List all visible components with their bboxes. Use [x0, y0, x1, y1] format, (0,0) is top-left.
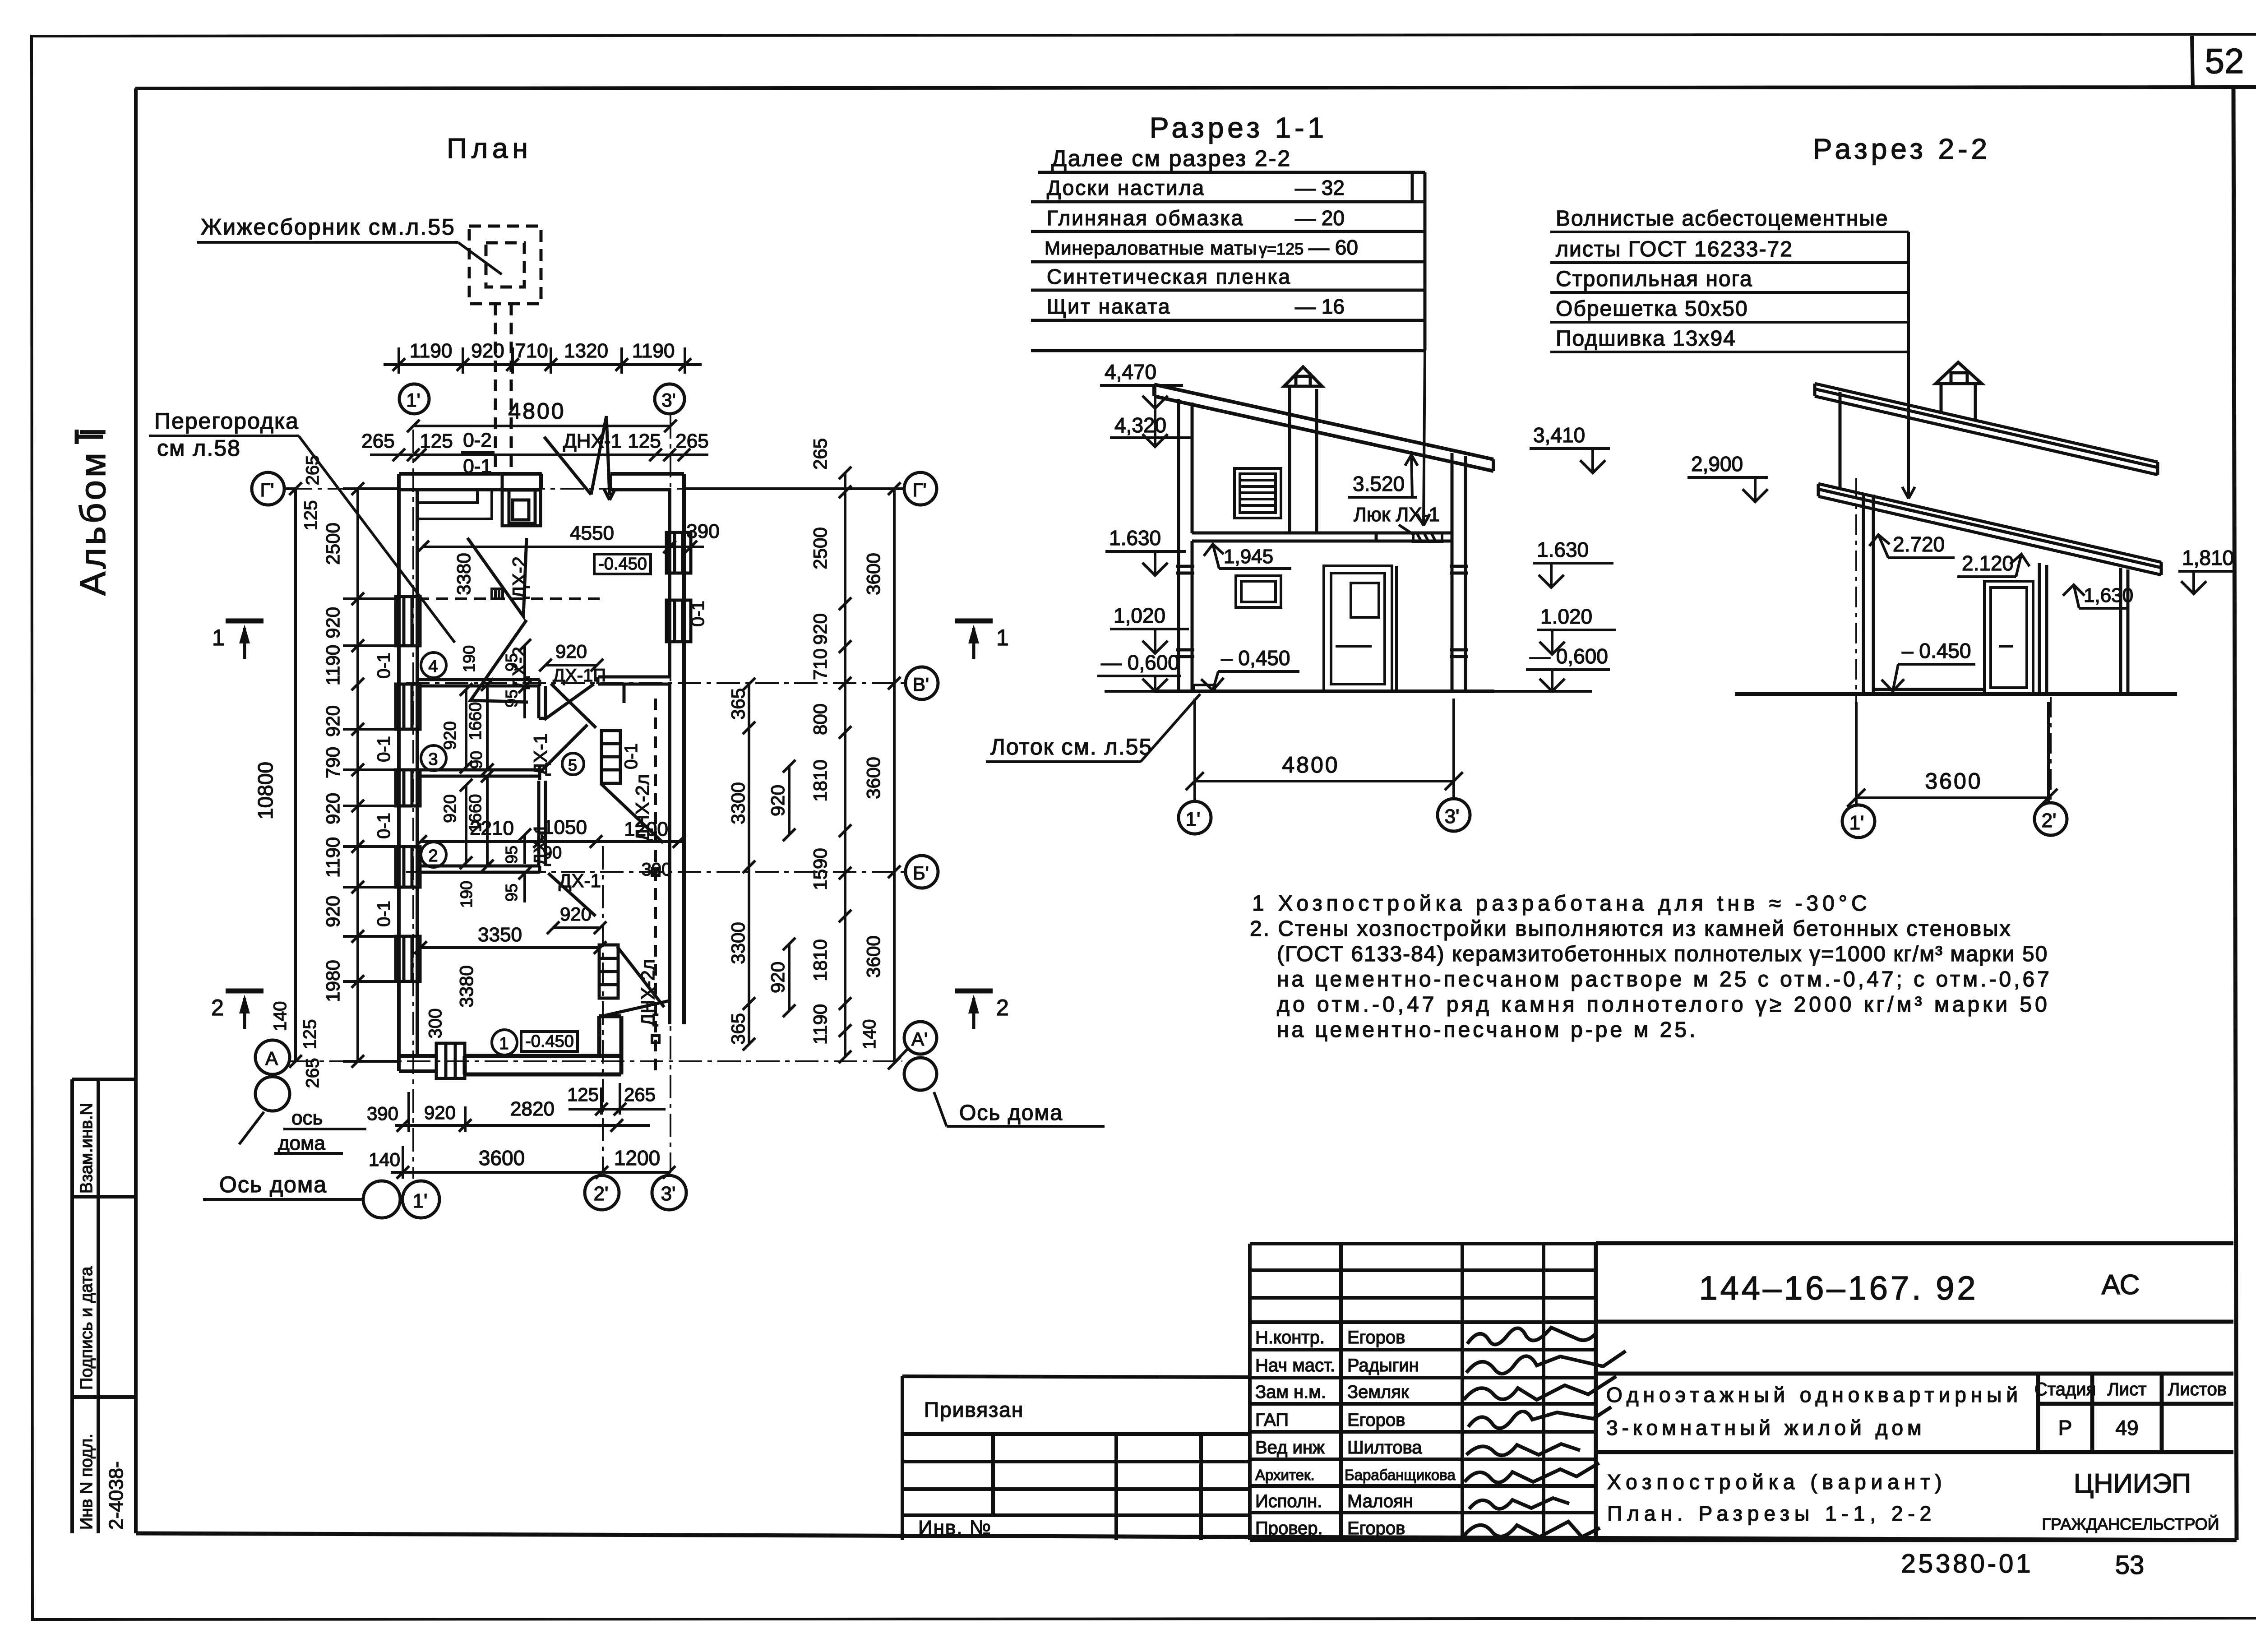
svg-text:Егоров: Егоров — [1347, 1518, 1405, 1538]
svg-text:265: 265 — [809, 438, 831, 470]
svg-text:49: 49 — [2115, 1416, 2138, 1439]
boxed elevation -0450 lower — [521, 1032, 578, 1051]
svg-text:4550: 4550 — [570, 522, 614, 544]
svg-text:95: 95 — [502, 846, 521, 864]
axis circle 1' bottom — [402, 1181, 439, 1218]
svg-text:Синтетическая пленка: Синтетическая пленка — [1047, 265, 1291, 288]
axis circle 3' bottom — [652, 1175, 686, 1210]
svg-text:1': 1' — [1186, 808, 1201, 830]
svg-text:1 Хозпостройка разработана дл: 1 Хозпостройка разработана для tнв ≈ -30… — [1252, 892, 1871, 916]
svg-text:Разрез 1-1: Разрез 1-1 — [1150, 111, 1327, 144]
s1 ceiling — [1192, 533, 1452, 541]
svg-text:1810: 1810 — [809, 759, 831, 801]
svg-text:В': В' — [913, 674, 929, 695]
room3 vertical dim lines — [460, 678, 494, 776]
svg-text:Стадия: Стадия — [2034, 1379, 2096, 1399]
s2 gable edge — [1839, 392, 1842, 488]
svg-text:Альбом I: Альбом I — [73, 425, 113, 596]
svg-text:1.630: 1.630 — [1109, 526, 1161, 550]
svg-text:2: 2 — [428, 847, 438, 865]
svg-text:2,900: 2,900 — [1691, 452, 1743, 476]
svg-text:1190: 1190 — [322, 837, 343, 878]
svg-text:920: 920 — [471, 340, 504, 362]
svg-text:Листов: Листов — [2168, 1379, 2227, 1399]
svg-text:125: 125 — [567, 1084, 599, 1105]
vertical partition — [539, 781, 546, 833]
SECTION 2-2 — [1550, 133, 2234, 838]
s2 floor — [1735, 689, 2177, 694]
svg-text:— 0,600: — 0,600 — [1101, 651, 1179, 674]
svg-text:Ось дома: Ось дома — [959, 1101, 1063, 1125]
svg-text:2820: 2820 — [510, 1098, 555, 1120]
s1 window — [1236, 576, 1281, 607]
svg-text:0-2: 0-2 — [463, 429, 492, 451]
svg-text:2': 2' — [2042, 810, 2057, 832]
roof layer label 3 — [1550, 267, 1909, 292]
svg-text:1': 1' — [406, 389, 420, 411]
lobby inner wall lines — [417, 490, 492, 519]
elev 4470 — [1100, 360, 1183, 408]
axis circle G' right — [904, 472, 937, 505]
s1 door — [1324, 566, 1396, 691]
hidden dashed line right interior — [652, 699, 659, 1074]
svg-text:3: 3 — [428, 750, 438, 769]
right floating dim 920 upper — [767, 760, 795, 841]
right floating dim 920 lower — [767, 938, 795, 1017]
svg-text:Провер.: Провер. — [1255, 1518, 1323, 1538]
svg-text:Ось дома: Ось дома — [219, 1172, 327, 1197]
door DNH-1 swing — [544, 416, 615, 500]
svg-text:95: 95 — [502, 653, 521, 671]
partition circle 4 — [421, 652, 446, 678]
svg-text:920: 920 — [322, 705, 343, 737]
elev -0450 s1 — [1201, 646, 1299, 690]
svg-text:0-1: 0-1 — [374, 736, 394, 762]
elev 2720 — [1869, 532, 1955, 558]
plan top wall — [399, 474, 684, 490]
svg-text:Б': Б' — [913, 862, 929, 884]
svg-text:365: 365 — [727, 1013, 749, 1045]
elev 3520 — [1348, 455, 1418, 497]
svg-text:— 32: — 32 — [1295, 176, 1345, 199]
svg-text:Далее см разрез 2-2: Далее см разрез 2-2 — [1051, 146, 1291, 171]
svg-text:Подпись и дата: Подпись и дата — [77, 1266, 96, 1390]
plan bottom wall left segment — [399, 1056, 436, 1071]
elev -0600 left — [1097, 651, 1181, 691]
svg-text:— 16: — 16 — [1295, 295, 1345, 318]
svg-text:Шилтова: Шилтова — [1347, 1438, 1422, 1458]
table leader to roof — [1417, 351, 1430, 526]
s2 dim 3600 — [1847, 702, 2057, 807]
elev 1945 — [1204, 544, 1291, 569]
svg-text:Г': Г' — [260, 479, 274, 500]
svg-text:1190: 1190 — [632, 340, 675, 362]
bottom dim row 140 3600 1200 — [369, 1146, 675, 1179]
PLAN — [77, 133, 1105, 1218]
svg-text:710: 710 — [809, 648, 831, 680]
svg-text:2. Стены хозпостройки выполняю: 2. Стены хозпостройки выполняются из кам… — [1250, 917, 2012, 941]
s2 axis circle 2' — [2034, 803, 2067, 835]
roof layer label 5 — [1550, 327, 1909, 352]
svg-text:920: 920 — [441, 794, 460, 823]
svg-text:265: 265 — [624, 1084, 656, 1105]
axis circle A left — [255, 1040, 290, 1074]
top dim 4800 — [407, 398, 677, 432]
inner frame bottom — [136, 1533, 2237, 1540]
svg-text:Барабанщикова: Барабанщикова — [1345, 1467, 1456, 1483]
door DNH-2l upper swing — [601, 783, 663, 843]
svg-text:3.520: 3.520 — [1353, 472, 1405, 495]
os doma label near A — [239, 1107, 366, 1154]
partition P4 — [417, 680, 540, 686]
svg-text:на цементно-песчаном растворе: на цементно-песчаном растворе м 25 с отм… — [1277, 967, 2052, 991]
svg-text:1,630: 1,630 — [2084, 584, 2133, 606]
svg-text:300: 300 — [425, 1009, 445, 1039]
svg-text:3600: 3600 — [863, 935, 884, 977]
section cut mark 1 left — [212, 621, 264, 659]
svg-text:Волнистые асбестоцементные: Волнистые асбестоцементные — [1556, 207, 1889, 231]
svg-text:ДХ-1: ДХ-1 — [559, 870, 601, 891]
svg-text:Н.контр.: Н.контр. — [1255, 1328, 1325, 1347]
svg-text:3': 3' — [1445, 805, 1460, 828]
svg-text:ось: ось — [291, 1107, 323, 1129]
s1 right wall — [1450, 453, 1468, 691]
s1 roof slab — [1154, 384, 1493, 471]
svg-text:ДХ-1: ДХ-1 — [530, 733, 551, 776]
svg-text:γ=125: γ=125 — [1259, 240, 1304, 258]
axis dashdot horizontal B' — [406, 871, 906, 873]
left wall piers — [396, 597, 420, 981]
elev 1630 right — [1533, 538, 1613, 588]
axis dashdot horizontal V' — [406, 682, 906, 684]
svg-text:Земляк: Земляк — [1347, 1382, 1409, 1402]
roof layer label 1 — [1550, 207, 1909, 232]
axis circle 3' top — [655, 384, 684, 414]
svg-text:Вед инж: Вед инж — [1255, 1438, 1325, 1458]
svg-text:– 0,450: – 0,450 — [1221, 646, 1290, 670]
s2 axis circle 1' — [1842, 805, 1875, 838]
svg-text:0-1: 0-1 — [374, 813, 394, 839]
svg-text:0-1: 0-1 — [463, 455, 492, 477]
dashed level line big room — [417, 597, 600, 600]
svg-text:ДНХ-2л: ДНХ-2л — [637, 959, 658, 1027]
room circle 5 — [562, 753, 584, 775]
svg-text:Привязан: Привязан — [924, 1398, 1024, 1421]
svg-text:1,810: 1,810 — [2182, 546, 2234, 569]
svg-text:Р: Р — [2058, 1416, 2072, 1439]
privyazan table — [902, 1376, 1250, 1540]
os doma label right — [934, 1092, 1105, 1126]
s1 attic louver — [1234, 468, 1281, 518]
svg-text:Егоров: Егоров — [1347, 1328, 1405, 1347]
svg-text:125: 125 — [420, 430, 453, 452]
svg-text:1660: 1660 — [466, 702, 485, 740]
door DH-1P leaf and swing — [539, 684, 596, 728]
sh mark — [492, 589, 503, 599]
svg-text:920: 920 — [441, 721, 460, 750]
sheet number box divider — [2192, 36, 2193, 88]
svg-text:3300: 3300 — [727, 782, 749, 824]
svg-text:125: 125 — [301, 500, 321, 531]
top dim chain 1 — [384, 340, 702, 374]
s1 floor — [1155, 689, 1494, 693]
svg-text:190: 190 — [457, 881, 476, 908]
svg-text:до отм.-0,47 ряд камня полноте: до отм.-0,47 ряд камня полнотелого γ≥ 20… — [1277, 993, 2050, 1017]
svg-text:Г': Г' — [913, 479, 927, 500]
svg-text:Одноэтажный одноквартирный: Одноэтажный одноквартирный — [1606, 1383, 2022, 1407]
svg-text:0-1: 0-1 — [621, 743, 641, 769]
svg-text:Нач маст.: Нач маст. — [1255, 1356, 1335, 1375]
svg-text:ГРАЖДАНСЕЛЬСТРОЙ: ГРАЖДАНСЕЛЬСТРОЙ — [2042, 1514, 2219, 1533]
chimney stove block — [502, 474, 541, 526]
porch L wall — [465, 1016, 621, 1074]
axis circle G' left — [252, 472, 296, 505]
svg-text:90: 90 — [543, 843, 562, 862]
svg-text:920: 920 — [322, 896, 343, 927]
svg-text:см л.58: см л.58 — [157, 435, 241, 461]
svg-text:140: 140 — [369, 1149, 400, 1170]
svg-text:Стропильная нога: Стропильная нога — [1556, 267, 1753, 291]
svg-text:265: 265 — [303, 455, 323, 486]
label lotok — [986, 694, 1200, 762]
elev -0600 right — [1526, 644, 1610, 691]
svg-text:920: 920 — [767, 785, 788, 816]
fold mark left — [77, 430, 103, 444]
svg-text:2': 2' — [594, 1183, 609, 1205]
s2 axis dashdot lines — [1856, 478, 2051, 802]
svg-text:710: 710 — [515, 340, 548, 362]
svg-text:Радыгин: Радыгин — [1347, 1356, 1419, 1375]
axis circle blank left — [255, 1077, 290, 1111]
top dim chain 3 — [361, 430, 708, 461]
svg-text:0-1: 0-1 — [688, 601, 708, 627]
svg-text:125: 125 — [300, 1019, 320, 1050]
svg-text:ЦНИИЭП: ЦНИИЭП — [2074, 1468, 2191, 1499]
svg-text:Жижесборник см.л.55: Жижесборник см.л.55 — [201, 214, 456, 240]
door DH-1 room3 swing — [540, 725, 587, 773]
svg-text:920: 920 — [322, 793, 343, 824]
axis circle 1' top — [399, 384, 429, 414]
svg-text:ДНХ-1: ДНХ-1 — [563, 430, 622, 452]
svg-text:0-1: 0-1 — [374, 901, 394, 927]
svg-text:Люк ЛХ-1: Люк ЛХ-1 — [1354, 504, 1440, 526]
plan left wall — [399, 474, 417, 1071]
axis dashdot horizontal A' — [291, 1060, 902, 1062]
top band line — [135, 87, 2256, 88]
partition circle 3 — [421, 745, 446, 771]
axis circle blank right — [904, 1058, 937, 1090]
svg-text:920: 920 — [560, 903, 592, 925]
svg-text:4800: 4800 — [508, 398, 565, 424]
svg-text:390: 390 — [642, 860, 672, 879]
axis circle B' right — [906, 856, 938, 888]
svg-text:– 0.450: – 0.450 — [1902, 639, 1971, 662]
right mid dim col 365 3300 — [727, 678, 755, 1050]
left outer dim 10800 — [254, 482, 302, 1068]
svg-text:Перегородка: Перегородка — [154, 408, 299, 434]
s1 left wall — [1179, 399, 1192, 691]
svg-text:Минераловатные маты: Минераловатные маты — [1045, 237, 1257, 259]
svg-text:Инв N подл.: Инв N подл. — [77, 1434, 96, 1530]
svg-text:1,020: 1,020 — [1114, 604, 1165, 627]
svg-text:3380: 3380 — [453, 553, 474, 595]
chute pier upper — [601, 731, 620, 783]
section cut mark 1 right — [955, 621, 1009, 659]
svg-text:Взам.инв.N: Взам.инв.N — [77, 1103, 96, 1194]
svg-text:140: 140 — [270, 1001, 290, 1032]
entry wall upper right — [598, 677, 670, 703]
svg-text:265: 265 — [675, 430, 708, 452]
elev 1020 right — [1537, 605, 1616, 654]
s2 right walls — [2039, 563, 2128, 694]
svg-text:920: 920 — [555, 641, 587, 662]
inner frame right — [2233, 87, 2237, 1540]
axis circle 2' bottom — [585, 1175, 619, 1210]
svg-text:ДХ-1П: ДХ-1П — [553, 666, 606, 685]
svg-text:53: 53 — [2115, 1550, 2145, 1580]
svg-text:1.020: 1.020 — [1540, 605, 1592, 628]
svg-text:800: 800 — [809, 703, 831, 735]
svg-text:920: 920 — [424, 1102, 456, 1123]
svg-text:2: 2 — [996, 995, 1009, 1020]
partition P3 — [417, 766, 540, 780]
door DNH-2l lower swing — [606, 947, 669, 1015]
elev 2120 — [1957, 551, 2029, 577]
svg-text:265: 265 — [361, 430, 394, 452]
svg-text:— 0,600: — 0,600 — [1530, 644, 1608, 668]
roof layer label 4 — [1550, 297, 1909, 322]
elev 1630 left — [1105, 526, 1186, 575]
zhizhesbornik pit dashed squares — [469, 226, 541, 474]
os doma label bottom — [203, 1172, 364, 1199]
svg-text:2-4038-: 2-4038- — [105, 1461, 127, 1530]
svg-text:90: 90 — [467, 751, 485, 769]
svg-text:190: 190 — [460, 645, 478, 672]
svg-text:Исполн.: Исполн. — [1255, 1491, 1322, 1511]
partition circle 2 — [421, 842, 446, 867]
s2 lower roof band — [1818, 484, 2161, 575]
svg-text:3600: 3600 — [479, 1146, 525, 1170]
svg-text:1,945: 1,945 — [1224, 546, 1273, 568]
right outer dim chain 3600 — [684, 482, 904, 1069]
peregorodka label — [149, 408, 455, 643]
svg-text:(ГОСТ 6133-84) керамзитобетонн: (ГОСТ 6133-84) керамзитобетонных полноте… — [1277, 942, 2048, 966]
svg-text:4,320: 4,320 — [1114, 413, 1166, 437]
svg-text:Разрез 2-2: Разрез 2-2 — [1813, 133, 1991, 165]
svg-text:ГАП: ГАП — [1255, 1410, 1289, 1430]
svg-text:1: 1 — [212, 625, 225, 650]
svg-text:1050: 1050 — [543, 816, 587, 838]
boxed elevation -0450 upper — [594, 554, 651, 574]
svg-text:Лист: Лист — [2108, 1379, 2147, 1399]
svg-text:Егоров: Егоров — [1347, 1410, 1405, 1430]
svg-text:Хозпостройка (вариант): Хозпостройка (вариант) — [1607, 1470, 1947, 1494]
svg-text:1980: 1980 — [322, 960, 343, 1002]
right inner dim chain — [809, 438, 879, 1063]
svg-text:1: 1 — [996, 625, 1009, 650]
bottom dim row 125 265 — [567, 1083, 666, 1115]
svg-text:1: 1 — [499, 1034, 509, 1053]
axis circle V' right — [906, 667, 938, 699]
s2 chimney — [1936, 362, 1982, 421]
SECTION 1-1 — [986, 111, 1616, 834]
axis dashdot vertical 2' — [602, 846, 604, 1172]
right block grid — [1596, 1243, 2234, 1540]
s1 ground extensions — [1105, 685, 1592, 691]
svg-text:0-1: 0-1 — [374, 652, 394, 679]
svg-text:— 20: — 20 — [1295, 206, 1345, 230]
svg-text:4800: 4800 — [1282, 752, 1339, 777]
svg-text:3600: 3600 — [1925, 768, 1982, 794]
svg-text:1190: 1190 — [322, 645, 343, 685]
svg-text:4: 4 — [428, 657, 438, 676]
svg-text:3380: 3380 — [456, 965, 477, 1007]
svg-text:— 60: — 60 — [1308, 236, 1358, 259]
svg-text:1': 1' — [1849, 812, 1864, 834]
s2 left wall — [1863, 493, 1873, 694]
svg-text:4,470: 4,470 — [1105, 360, 1156, 384]
svg-text:5: 5 — [568, 756, 577, 774]
svg-text:А': А' — [911, 1028, 928, 1050]
dim 4550 390 — [416, 520, 720, 553]
elev 2900 — [1687, 452, 1768, 502]
svg-text:1590: 1590 — [809, 848, 831, 890]
svg-text:3': 3' — [661, 1183, 676, 1205]
axis dashdot vertical 3' — [670, 415, 671, 1173]
svg-text:-0.450: -0.450 — [525, 1032, 574, 1051]
partition P2 — [417, 866, 540, 872]
svg-text:1320: 1320 — [564, 340, 608, 362]
elev 1630 s2 — [2063, 584, 2133, 608]
svg-text:1190: 1190 — [809, 1004, 831, 1045]
svg-text:144–16–167. 92: 144–16–167. 92 — [1699, 1269, 1979, 1307]
svg-text:Глиняная обмазка: Глиняная обмазка — [1047, 206, 1244, 230]
svg-text:Доски настила: Доски настила — [1047, 176, 1205, 199]
NOTES — [1250, 892, 2052, 1042]
svg-text:2: 2 — [211, 995, 224, 1020]
section cut mark 2 left — [211, 991, 264, 1029]
svg-text:на цементно-песчаном р-ре м 25: на цементно-песчаном р-ре м 25. — [1277, 1018, 1698, 1042]
elev 4320 — [1110, 408, 1191, 447]
svg-text:Лоток см. л.55: Лоток см. л.55 — [990, 734, 1152, 759]
svg-text:265: 265 — [303, 1058, 323, 1088]
elev 1020 left — [1110, 604, 1189, 653]
svg-text:2500: 2500 — [809, 527, 831, 569]
svg-text:2.720: 2.720 — [1893, 532, 1945, 556]
svg-text:920: 920 — [322, 607, 343, 639]
bottom wall pier — [436, 1043, 465, 1078]
s1 axis circle 3' — [1438, 799, 1470, 831]
svg-text:790: 790 — [322, 747, 343, 778]
svg-text:25380-01: 25380-01 — [1901, 1549, 2033, 1578]
svg-text:А: А — [265, 1048, 278, 1069]
margin boxes — [72, 1079, 135, 1533]
left O-1 labels — [374, 652, 394, 927]
svg-text:10800: 10800 — [254, 762, 277, 819]
s1 dim 4800 — [1186, 699, 1463, 801]
inner frame left — [134, 88, 138, 1533]
svg-text:1.630: 1.630 — [1537, 538, 1589, 561]
svg-text:3': 3' — [661, 389, 675, 411]
svg-text:3300: 3300 — [727, 922, 749, 964]
svg-text:1190: 1190 — [410, 340, 453, 362]
svg-text:Зам н.м.: Зам н.м. — [1255, 1382, 1326, 1402]
svg-text:План. Разрезы 1-1, 2-2: План. Разрезы 1-1, 2-2 — [1607, 1502, 1936, 1525]
label 0-2 0-1 — [461, 429, 495, 477]
s1 axis circle 1' — [1179, 801, 1211, 834]
mid dim row 2210 1050 1200 — [414, 816, 685, 879]
s2 door — [1984, 581, 2033, 694]
